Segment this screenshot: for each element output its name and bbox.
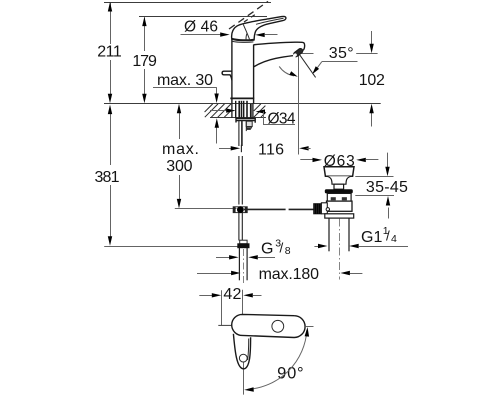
mounting washer below counter [236,118,255,122]
svg-text:42: 42 [223,286,241,303]
node top view horizontal centerline [218,324,231,326]
wire base rim line [230,97,254,99]
wire teardrop inner contour [248,339,249,361]
svg-text:G1: G1 [361,229,382,246]
node counter top surface line [104,103,381,105]
dim 211 vertical line with arrows [108,2,112,103]
node supply centerline lower [243,249,245,285]
faucet shank bars below counter [232,101,253,118]
dim 116 right arrow [299,146,309,150]
node max300 bottom reference line [175,208,237,210]
dim G3/8 right arrow [248,255,257,259]
wire knob stripes [316,204,320,214]
dim Ø46 right arrow [255,33,265,37]
svg-text:max. 30: max. 30 [157,72,213,89]
wire pop-up rod to drain [244,208,286,210]
waste square nub [334,184,344,189]
top view lever pill [232,314,305,337]
svg-text:35°: 35° [329,45,354,62]
node spout outlet extension line [298,55,300,155]
drain waste assembly [314,167,354,252]
svg-text:300: 300 [166,158,192,175]
svg-text:8: 8 [285,245,291,257]
svg-text:max.180: max.180 [259,266,319,283]
faucet body side view [222,16,305,103]
wire 35° leader diagonal with arrow [315,62,322,72]
dim 381 vertical line with arrows [108,105,112,246]
waste black seal band [325,189,353,193]
node 35° leader underline [322,61,358,63]
aerator [293,48,304,58]
wire spray stream line [300,55,316,78]
node 35° left connector line [300,53,314,55]
dim 42 extension lines [221,290,223,325]
connection nut G3/8 [238,244,249,248]
dim 42 right arrow [243,293,253,297]
waste tailpipe [328,218,330,251]
dim max30 right arrow down [216,87,218,95]
dim Ø63 left arrow [300,159,314,161]
top view pivot circle [272,320,284,332]
label G1 1/4 [361,225,397,246]
dim Ø63 right arrow [356,158,366,162]
waste upper body [327,193,351,201]
svg-text:4: 4 [391,233,397,245]
wire hose tick at 116 arrow [240,145,242,152]
label G3/8 [261,237,291,257]
svg-text:/: / [386,228,390,243]
svg-text:116: 116 [258,141,284,158]
dim 179 vertical line with arrows [142,17,146,104]
spout underside [254,56,294,67]
dim Ø34 left arrow [210,110,228,112]
waste concave neck [327,176,352,184]
svg-text:/: / [280,240,284,255]
dim max.300 vertical line with arrows [177,104,181,209]
svg-text:Ø 46: Ø 46 [184,18,218,35]
node junction dot [237,206,244,213]
wire cap bottom rim [232,39,254,40]
wire cap inner diagonal [243,24,250,40]
wire body left edge [231,39,233,104]
dim G1 1/4 left arrow [314,246,322,248]
pop-up rod knob tab [222,71,232,80]
svg-text:G: G [261,241,273,258]
threaded tail G3/8 [239,248,247,281]
spout outline top edge and tip [254,42,305,51]
svg-text:Ø34: Ø34 [268,111,296,128]
node 35-45 upper reference line [355,176,393,178]
tee fitting at rod junction [233,207,247,213]
node top reference line 211 upper extent [104,2,271,4]
svg-text:381: 381 [95,169,120,186]
svg-text:179: 179 [132,53,157,70]
dim max180 left arrow [197,273,232,275]
node counter bottom line [210,117,266,119]
wire hatching right of faucet [254,104,266,117]
dim 42 left arrow [199,295,213,297]
waste lower flange [325,214,354,218]
svg-text:90°: 90° [277,365,304,383]
dim G1 1/4 right arrow [349,244,359,248]
svg-text:max.: max. [162,141,199,158]
dim 116 left arrow [219,148,232,150]
wire aerator outlet ellipse [292,53,297,58]
node 381 bottom reference line [104,246,237,248]
svg-text:102: 102 [359,72,385,89]
node 179 upper reference line [139,16,267,18]
svg-text:211: 211 [97,44,122,61]
wire 90° swing arc with arrows [248,330,307,389]
hose stub fitting [246,120,252,131]
dashed raised lever position [229,1,268,29]
node 102 top reference line [356,53,377,55]
node 35-45 lower reference line [355,195,394,197]
supply hose lower segment [238,156,240,205]
wire body right edge [253,45,255,104]
dim max180 right arrow [340,271,350,275]
dim 35-45 arrows [387,153,389,168]
rod knurled knob [314,204,322,214]
dim max30 lower up arrow [216,127,218,144]
dim 102 vertical with arrows [371,31,373,45]
supply hose upper segment [239,120,242,204]
node drain centerline [339,219,341,280]
rod bracket [321,203,327,214]
hose end fitting [240,240,247,244]
top view aerator circle [239,354,247,362]
node top view vertical centerline [243,362,245,395]
dim Ø34 right arrow + leader [256,109,266,113]
wire hatching left of faucet [205,104,232,117]
supply hose below junction [239,213,242,241]
top view spout teardrop [233,334,250,369]
dim G3/8 left arrow [216,257,230,259]
waste hex body [327,201,353,211]
waste top flange [324,167,354,177]
dim Ø46 left arrow [220,32,230,36]
lever and cap outline [232,16,286,40]
svg-text:35-45: 35-45 [366,179,408,196]
wire spray angle arc with arrow [279,66,294,76]
